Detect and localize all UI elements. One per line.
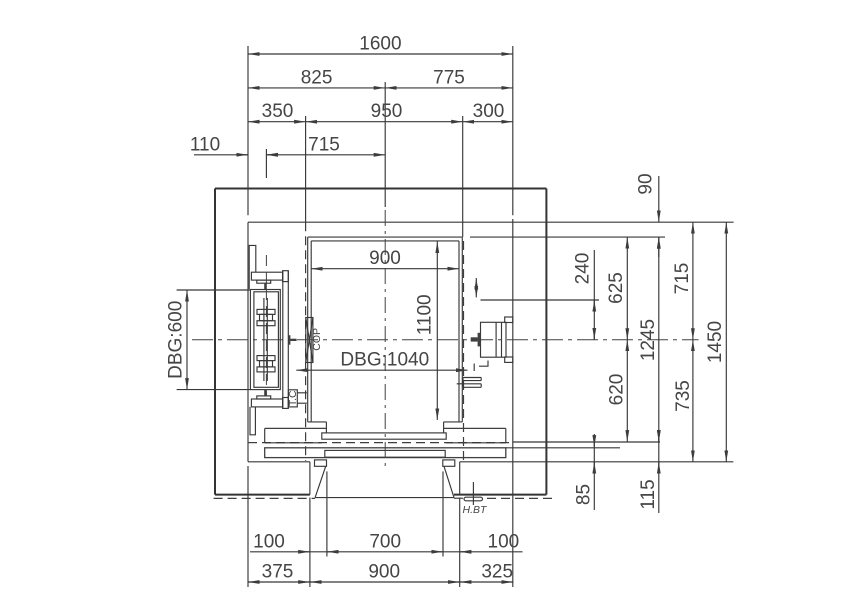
svg-text:950: 950 (371, 101, 403, 122)
svg-text:115: 115 (638, 479, 659, 509)
T.C connector lines (297, 392, 307, 394)
svg-text:90: 90 (636, 173, 657, 194)
svg-text:375: 375 (262, 562, 294, 583)
car wall bottom step right (444, 421, 463, 423)
svg-text:1245: 1245 (638, 319, 659, 361)
right bracket inner column lines (495, 322, 497, 357)
dim 1600 (248, 53, 513, 55)
cw guide rail blade bottom (264, 390, 267, 396)
landing sill inner bar (325, 450, 445, 457)
cw guide rail blade top (264, 283, 267, 289)
door reveal diagonal left (315, 466, 326, 497)
dim 735 (692, 340, 694, 462)
svg-text:COP: COP (311, 328, 323, 351)
dim 300 (463, 121, 513, 123)
extension line x248 top (247, 46, 249, 215)
center line horizontal (192, 339, 699, 341)
right bracket bottom flange (505, 357, 513, 362)
extension line x459.7 bottom (459, 498, 461, 588)
dim DBG:1040 (296, 369, 467, 371)
dashed outer boundary bottom left (214, 497, 315, 499)
svg-text:110: 110 (190, 134, 220, 155)
svg-text:700: 700 (369, 531, 401, 552)
door jamb tab right (443, 460, 455, 466)
dim 950 (306, 121, 463, 123)
car sill support bar (265, 427, 327, 429)
dashed clear opening line right (463, 241, 465, 460)
counterweight frame outer (250, 290, 280, 390)
cw lower filler block (257, 356, 275, 361)
extension line x385.2 center top (384, 82, 386, 207)
svg-text:325: 325 (481, 562, 513, 583)
bracket line with extension for 240 dim (481, 299, 600, 301)
svg-text:900: 900 (369, 248, 401, 269)
right bracket top flange (505, 317, 513, 323)
T.C box (288, 390, 297, 407)
dim 85 (593, 434, 595, 510)
COP box (306, 318, 313, 363)
counterweight frame inner (254, 292, 279, 388)
H.BT buffer symbol (464, 497, 483, 501)
COP cross diagonals (306, 318, 313, 363)
hoistway inner wall top with extension line right (248, 221, 734, 223)
extension line y447.8 for 85 dim (506, 447, 620, 449)
extension line x309.9 bottom (309, 498, 311, 588)
hoistway inner wall left (247, 222, 249, 462)
right rail clip (463, 377, 481, 379)
hoistway outer wall top (215, 188, 546, 190)
svg-text:715: 715 (672, 263, 693, 295)
door jamb tab left (315, 460, 327, 466)
dim 775 (385, 87, 513, 89)
dim 90 (658, 176, 660, 222)
door opening wall edge left (309, 462, 311, 495)
svg-text:900: 900 (368, 562, 400, 583)
svg-text:300: 300 (473, 101, 505, 122)
counterweight top bracket bar (251, 272, 282, 280)
car guide rail right blade (471, 337, 478, 341)
counterweight center line (265, 149, 267, 178)
svg-text:100: 100 (253, 531, 285, 552)
dim 1245 (658, 237, 660, 442)
car guide rail left blade (290, 339, 296, 341)
travel arrow (475, 278, 477, 297)
cw mounting plate left line (282, 271, 284, 409)
dim 240 (593, 250, 595, 340)
svg-text:1600: 1600 (359, 34, 401, 55)
center line vertical (384, 210, 386, 471)
dashed clear opening line left (305, 222, 307, 461)
car sill plate (322, 433, 446, 439)
dim 1100 car (436, 242, 438, 421)
dim 825 (248, 87, 385, 89)
hoistway outer wall bottom left segment (215, 494, 310, 496)
counterweight top end plate (283, 271, 289, 282)
cw upper filler block (257, 309, 275, 314)
counterweight bottom end plate (283, 398, 289, 409)
svg-text:DBG:1040: DBG:1040 (340, 350, 429, 371)
car outer wall (308, 236, 463, 238)
dashed landing floor line (248, 442, 513, 444)
svg-text:240: 240 (573, 253, 594, 285)
landing sill bar (265, 448, 506, 458)
svg-text:825: 825 (301, 67, 333, 88)
cw mounting plate right line (287, 271, 289, 409)
right J bracket (479, 361, 488, 367)
dim 620 (626, 340, 628, 442)
dim 625 (626, 237, 628, 340)
extension line x512.8 top (512, 46, 514, 215)
svg-text:DBG:600: DBG:600 (166, 301, 187, 379)
cw shaft left line (263, 298, 265, 381)
right ledge line with extension for 90/625 dims (470, 236, 665, 238)
svg-text:85: 85 (574, 484, 595, 505)
dim 115 (658, 430, 660, 513)
dim 350 (248, 121, 306, 123)
extension line x462.7 top (462, 116, 464, 237)
extension line y442 for 115 dim (513, 441, 660, 443)
car inner wall (311, 240, 459, 242)
svg-text:775: 775 (433, 67, 465, 88)
dim 1450 (725, 222, 727, 462)
right rail bracket box (481, 322, 507, 357)
extension line x305.6 top (305, 116, 307, 222)
svg-text:350: 350 (262, 101, 294, 122)
hoistway outer wall right (545, 189, 547, 495)
svg-text:625: 625 (606, 272, 627, 304)
car wall bottom step left (308, 421, 327, 423)
svg-text:620: 620 (607, 374, 628, 406)
car guide rail left base (288, 335, 290, 345)
counterweight wall legs bottom (250, 407, 255, 435)
dim DBG:600 (177, 289, 251, 291)
dim 110 (194, 154, 248, 156)
dim 900 car (311, 268, 459, 270)
extension line x248 bottom (247, 466, 249, 587)
svg-text:1100: 1100 (414, 294, 435, 335)
dim 715 right (692, 222, 694, 340)
door reveal diagonal right (444, 466, 454, 497)
dashed outer boundary bottom right (487, 497, 554, 499)
hoistway inner wall right (512, 219, 514, 587)
door opening wall edge right (459, 462, 461, 495)
svg-text:T.C: T.C (287, 390, 299, 406)
counterweight bottom bracket bar (251, 399, 282, 407)
svg-text:H.BT: H.BT (463, 504, 489, 516)
door threshold line (315, 497, 454, 499)
svg-text:735: 735 (673, 380, 694, 412)
hoistway inner wall bottom left (248, 461, 310, 463)
cw guide rail base bottom (257, 396, 271, 399)
svg-text:100: 100 (488, 531, 520, 552)
extension line x443 jamb (442, 471, 444, 556)
hoistway outer wall bottom right segment (454, 494, 547, 496)
dim row 375 900 325 (248, 581, 513, 583)
hoistway outer wall left (214, 189, 216, 495)
dim row 100 700 100 (250, 551, 523, 553)
extension line x326.9 jamb (326, 471, 328, 556)
dim 715 top (266, 154, 385, 156)
cw shaft right line (266, 298, 268, 381)
car guide rail right base (478, 333, 481, 347)
hoistway inner wall bottom right with extension line (460, 461, 734, 463)
svg-text:1450: 1450 (705, 321, 726, 363)
buffer base line (454, 497, 463, 499)
cw guide rail base top (257, 280, 271, 283)
svg-text:715: 715 (308, 134, 340, 155)
counterweight wall step top (249, 245, 256, 289)
